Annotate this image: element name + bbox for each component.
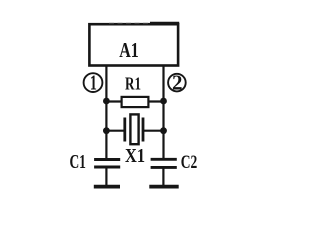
- svg-text:C2: C2: [181, 152, 198, 173]
- wire: horizontal through R1 row: [106, 100, 163, 102]
- junction dot left at R1 row: [103, 98, 110, 105]
- junction dot right at X1 row: [160, 127, 167, 134]
- junction dot left at X1 row: [103, 127, 110, 134]
- capacitor C1: [94, 160, 120, 187]
- resistor R1 body: [122, 97, 149, 107]
- wire: crystal row left segment: [106, 130, 124, 132]
- svg-text:X1: X1: [125, 145, 145, 167]
- label C2: [181, 152, 198, 173]
- svg-text:C1: C1: [69, 151, 86, 173]
- label A1: [119, 38, 139, 62]
- svg-text:1: 1: [90, 70, 97, 94]
- label R1: [125, 74, 141, 94]
- junction dot right at R1 row: [160, 98, 167, 105]
- wire: right vertical from A1 pin to C2: [162, 66, 164, 159]
- crystal X1: [125, 114, 143, 144]
- ground bar under C2: [149, 185, 178, 189]
- IC U1 box (A1): [89, 23, 179, 66]
- ground bar under C1: [94, 185, 120, 189]
- svg-text:2: 2: [172, 71, 183, 95]
- label X1: [125, 145, 145, 167]
- capacitor C2: [151, 159, 177, 186]
- label C1: [69, 151, 86, 173]
- pin 1 bubble: [84, 70, 103, 94]
- wire: left vertical from A1 pin to C1: [105, 66, 107, 159]
- svg-text:R1: R1: [125, 74, 141, 94]
- wire: crystal row right segment: [143, 130, 164, 132]
- pin 2 bubble: [168, 71, 186, 95]
- svg-text:A1: A1: [119, 38, 139, 62]
